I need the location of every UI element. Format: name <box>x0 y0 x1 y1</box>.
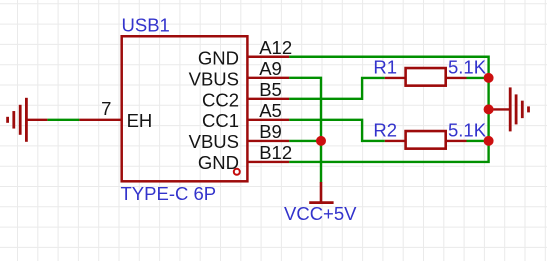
resistor R2 <box>385 131 467 149</box>
junction dot VBUS B9 <box>316 136 326 146</box>
wire B9 VBUS <box>289 140 321 142</box>
wire GND loop A12-B12 to rail <box>289 57 489 162</box>
resistor R1 <box>385 68 467 86</box>
wire R1 right to GND rail <box>467 77 489 79</box>
svg-text:A9: A9 <box>259 58 282 79</box>
svg-text:VBUS: VBUS <box>189 68 239 89</box>
svg-text:EH: EH <box>127 110 153 131</box>
wire B5 CC2 to R1 <box>289 78 385 99</box>
svg-text:B12: B12 <box>259 142 292 163</box>
component USB1 box <box>122 36 248 181</box>
svg-text:GND: GND <box>198 47 239 68</box>
junction dot R1/GND rail <box>484 73 494 83</box>
svg-text:CC1: CC1 <box>202 110 239 131</box>
svg-text:GND: GND <box>198 152 239 173</box>
svg-text:A5: A5 <box>259 100 282 121</box>
svg-text:TYPE-C 6P: TYPE-C 6P <box>121 183 217 204</box>
wire A5 CC1 to R2 <box>289 120 385 141</box>
pin A5 (CC1) stub <box>247 119 289 121</box>
wire R2 right to GND rail <box>467 140 489 142</box>
pin A9 (VBUS) stub <box>247 77 289 79</box>
svg-text:VBUS: VBUS <box>189 131 239 152</box>
pin A12 (GND) stub <box>247 56 289 58</box>
pin 7 EH stub <box>79 119 121 121</box>
ground GND left <box>8 98 48 142</box>
wire EH to ground <box>47 119 79 121</box>
svg-text:R2: R2 <box>373 120 397 141</box>
pin B12 (GND) stub <box>247 161 289 163</box>
ground GND right <box>489 87 529 131</box>
svg-text:5.1K: 5.1K <box>448 120 487 141</box>
svg-text:USB1: USB1 <box>122 14 170 35</box>
svg-text:B9: B9 <box>259 121 282 142</box>
power VCC+5V symbol <box>309 182 333 203</box>
svg-text:R1: R1 <box>373 57 397 78</box>
svg-text:5.1K: 5.1K <box>448 57 487 78</box>
svg-text:A12: A12 <box>259 37 292 58</box>
svg-text:VCC+5V: VCC+5V <box>284 203 357 224</box>
wire A9 VBUS down to power <box>289 78 321 183</box>
pin marker circle <box>234 169 240 175</box>
junction dot ground tap <box>484 104 494 114</box>
svg-text:B5: B5 <box>259 79 282 100</box>
svg-text:7: 7 <box>101 98 111 119</box>
pin B5 (CC2) stub <box>247 98 289 100</box>
svg-text:CC2: CC2 <box>202 89 239 110</box>
pin B9 (VBUS) stub <box>247 140 289 142</box>
junction dot R2/GND rail <box>484 136 494 146</box>
